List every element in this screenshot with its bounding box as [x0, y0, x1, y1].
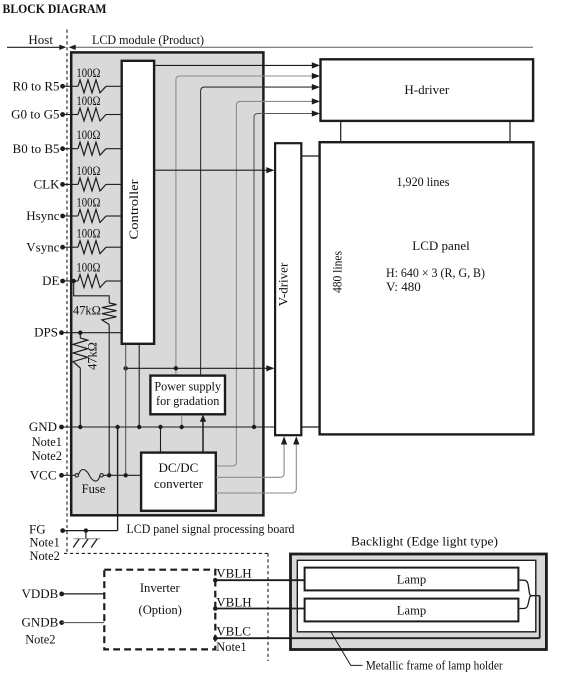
backlight frame inner — [297, 560, 536, 632]
wire VCC to DC/DC — [103, 474, 141, 476]
label FG Note2 — [30, 549, 60, 563]
wire controller bottom to VCC (via gradation node) — [125, 345, 127, 475]
title BLOCK DIAGRAM — [3, 1, 107, 16]
wire GND to DC/DC top — [160, 427, 162, 453]
label for gradation — [156, 394, 219, 408]
wire H-driver to panel left — [340, 122, 342, 143]
svg-text:Vsync: Vsync — [26, 239, 59, 254]
input R0 to R5 with resistor 100ohm — [13, 66, 122, 94]
svg-text:1,920 lines: 1,920 lines — [397, 174, 450, 189]
backlight frame outer (metallic frame) — [291, 554, 547, 650]
svg-text:VBLH: VBLH — [216, 565, 251, 580]
label H-driver — [404, 82, 449, 97]
label V-driver — [276, 262, 291, 306]
svg-text:100Ω: 100Ω — [76, 164, 100, 178]
inverter box (dashed) — [104, 570, 215, 650]
wire VBLH2 — [213, 606, 305, 611]
svg-text:Note2: Note2 — [32, 449, 62, 463]
wire FG up to GND — [117, 427, 119, 531]
svg-text:H: 640 × 3 (R, G, B): H: 640 × 3 (R, G, B) — [386, 265, 485, 280]
svg-text:480 lines: 480 lines — [331, 251, 345, 293]
host boundary dashed line — [66, 30, 68, 554]
LCD panel signal processing board (gray) — [71, 52, 263, 515]
input GNDB — [21, 615, 104, 630]
svg-text:100Ω: 100Ω — [76, 66, 100, 80]
svg-text:Metallic frame of lamp holder: Metallic frame of lamp holder — [366, 658, 504, 672]
node GND junction 47k — [78, 425, 82, 429]
input GND — [29, 419, 275, 434]
label LCD panel signal processing board — [127, 522, 296, 536]
input DE with resistor 100ohm — [42, 261, 122, 289]
V-driver box — [275, 143, 301, 435]
power supply for gradation box — [150, 376, 225, 415]
wire V-driver to panel top — [302, 155, 320, 157]
input CLK with resistor 100ohm — [34, 164, 122, 192]
svg-text:FG: FG — [29, 522, 46, 537]
label DC/DC — [159, 460, 199, 475]
resistor 47k R9 (DPS to GND) — [73, 333, 88, 427]
svg-text:DC/DC: DC/DC — [159, 460, 199, 475]
svg-text:V: 480: V: 480 — [386, 279, 421, 294]
svg-text:converter: converter — [154, 476, 204, 491]
node VCC junction C — [124, 473, 128, 477]
node GND junction ctrl — [137, 425, 141, 429]
svg-text:Lamp: Lamp — [397, 603, 426, 617]
label GND Note2 — [32, 449, 62, 463]
resistor 47k R8 path (DE to VCC) — [74, 281, 117, 475]
label 47k ohm upper — [73, 304, 101, 318]
label VBLH 1 — [216, 565, 251, 580]
label Controller — [126, 179, 141, 240]
node DE junction — [72, 279, 76, 283]
svg-text:Host: Host — [28, 32, 53, 47]
wire DC/DC to V-driver bottom 1 — [216, 436, 287, 477]
label Lamp 2 — [397, 603, 426, 617]
svg-text:(Option): (Option) — [139, 603, 182, 617]
controller box U1 — [122, 61, 154, 344]
LCD panel box — [320, 142, 534, 434]
node FG junction — [84, 528, 88, 532]
svg-text:Note2: Note2 — [25, 632, 55, 646]
fuse F1 — [75, 470, 103, 482]
wire lcd-module underline with arrow — [69, 45, 533, 50]
svg-text:Note1: Note1 — [30, 535, 60, 549]
label Power supply — [154, 379, 222, 393]
lamp L1 — [305, 568, 519, 591]
svg-text:Hsync: Hsync — [26, 208, 59, 223]
svg-text:VBLH: VBLH — [216, 594, 251, 609]
input DPS — [34, 325, 122, 340]
input B0 to B5 with resistor 100ohm — [13, 128, 122, 156]
svg-text:B0 to B5: B0 to B5 — [13, 141, 60, 156]
label GNDB Note2 — [25, 632, 55, 646]
svg-text:BLOCK DIAGRAM: BLOCK DIAGRAM — [3, 1, 107, 16]
leader line metallic frame — [331, 632, 363, 666]
wire gradation to V-driver — [124, 365, 275, 371]
svg-text:GND: GND — [29, 419, 57, 434]
wire V-driver to panel bottom — [302, 426, 320, 428]
input VCC — [30, 467, 77, 482]
svg-text:DE: DE — [42, 273, 59, 288]
svg-text:47kΩ: 47kΩ — [73, 304, 101, 318]
svg-text:Fuse: Fuse — [82, 482, 106, 496]
node VCC junction A — [107, 473, 111, 477]
wire DC/DC to gradation arrow — [200, 415, 206, 453]
input Vsync with resistor 100ohm — [26, 227, 121, 255]
node Host label — [28, 32, 53, 47]
input G0 to G5 with resistor 100ohm — [11, 94, 122, 122]
chassis ground symbol — [73, 531, 100, 548]
node GND junction psu — [180, 425, 184, 429]
label Metallic frame of lamp holder — [366, 658, 504, 672]
svg-text:VCC: VCC — [30, 467, 57, 482]
wire bus4 DC/DC to H-driver — [216, 98, 320, 466]
wire gradation box to GND stub — [181, 415, 183, 427]
node LCD module (Product) label — [92, 32, 204, 47]
svg-text:100Ω: 100Ω — [76, 128, 100, 142]
label VBLH 2 — [216, 594, 251, 609]
wire host underline with arrow — [7, 45, 66, 50]
svg-text:Inverter: Inverter — [140, 581, 181, 595]
label Backlight (Edge light type) — [351, 534, 498, 548]
svg-text:for gradation: for gradation — [156, 394, 219, 408]
wire lamp bracket — [520, 580, 540, 638]
svg-text:VDDB: VDDB — [21, 586, 58, 601]
node DPS junction — [78, 331, 82, 335]
DC/DC converter box — [141, 453, 216, 511]
svg-text:V-driver: V-driver — [276, 262, 291, 306]
label H: 640 x 3 — [386, 265, 485, 280]
svg-text:Note1: Note1 — [216, 640, 246, 654]
label VBLC Note1 — [216, 640, 246, 654]
wire bus1 controller to H-driver — [155, 62, 320, 68]
label Lamp 1 — [397, 572, 426, 586]
node bus2 junction on gradation wire — [174, 366, 178, 370]
svg-text:Note1: Note1 — [32, 435, 62, 449]
svg-text:G0 to G5: G0 to G5 — [11, 107, 59, 122]
label Inverter — [140, 581, 181, 595]
wire VBLH1 — [213, 578, 305, 583]
input FG — [29, 522, 118, 537]
svg-text:VBLC: VBLC — [216, 623, 251, 638]
wire bus2 to H-driver — [176, 73, 320, 376]
label V: 480 — [386, 279, 421, 294]
svg-text:R0 to R5: R0 to R5 — [13, 79, 60, 94]
label LCD panel — [412, 238, 470, 253]
label converter — [154, 476, 204, 491]
svg-text:DPS: DPS — [34, 325, 58, 340]
label FG Note1 — [30, 535, 60, 549]
lamp L2 — [305, 599, 519, 622]
label 47k ohm lower (rotated) — [86, 342, 100, 370]
wire bus3 to H-driver — [201, 84, 320, 375]
label Fuse — [82, 482, 106, 496]
wire H-driver to panel right — [509, 122, 511, 143]
label VBLC — [216, 623, 251, 638]
svg-text:H-driver: H-driver — [404, 82, 449, 97]
svg-text:100Ω: 100Ω — [76, 94, 100, 108]
svg-text:LCD module (Product): LCD module (Product) — [92, 32, 204, 47]
svg-text:100Ω: 100Ω — [76, 261, 100, 275]
wire controller bottom to GND — [138, 345, 140, 427]
wire VBLC — [213, 636, 540, 641]
svg-text:Lamp: Lamp — [397, 572, 426, 586]
svg-text:Power supply: Power supply — [154, 379, 222, 393]
svg-text:CLK: CLK — [34, 177, 61, 192]
H-driver box — [321, 59, 534, 121]
label GND Note1 — [32, 435, 62, 449]
wire controller to V-driver upper — [155, 167, 274, 173]
svg-text:Controller: Controller — [126, 179, 141, 240]
board boundary dashed line vertical — [267, 553, 269, 661]
node GND junction bus5 — [252, 425, 256, 429]
svg-text:Backlight (Edge light type): Backlight (Edge light type) — [351, 534, 498, 548]
svg-text:Note2: Note2 — [30, 549, 60, 563]
label 1,920 lines — [397, 174, 450, 189]
input VDDB — [21, 586, 104, 601]
node GND junction FG — [115, 425, 119, 429]
svg-text:LCD panel: LCD panel — [412, 238, 470, 253]
label (Option) — [139, 603, 182, 617]
svg-text:100Ω: 100Ω — [76, 196, 100, 210]
input Hsync with resistor 100ohm — [26, 196, 121, 224]
wire DC/DC to V-driver bottom 2 — [216, 436, 299, 493]
label 480 lines — [331, 251, 345, 293]
svg-text:GNDB: GNDB — [21, 615, 58, 630]
svg-text:100Ω: 100Ω — [76, 227, 100, 241]
svg-text:47kΩ: 47kΩ — [86, 342, 100, 370]
svg-text:LCD panel signal processing bo: LCD panel signal processing board — [127, 522, 296, 536]
wire bus5 GND to H-driver — [254, 110, 320, 427]
board boundary dashed line horizontal — [64, 552, 268, 554]
node GND junction dcdc — [158, 425, 162, 429]
